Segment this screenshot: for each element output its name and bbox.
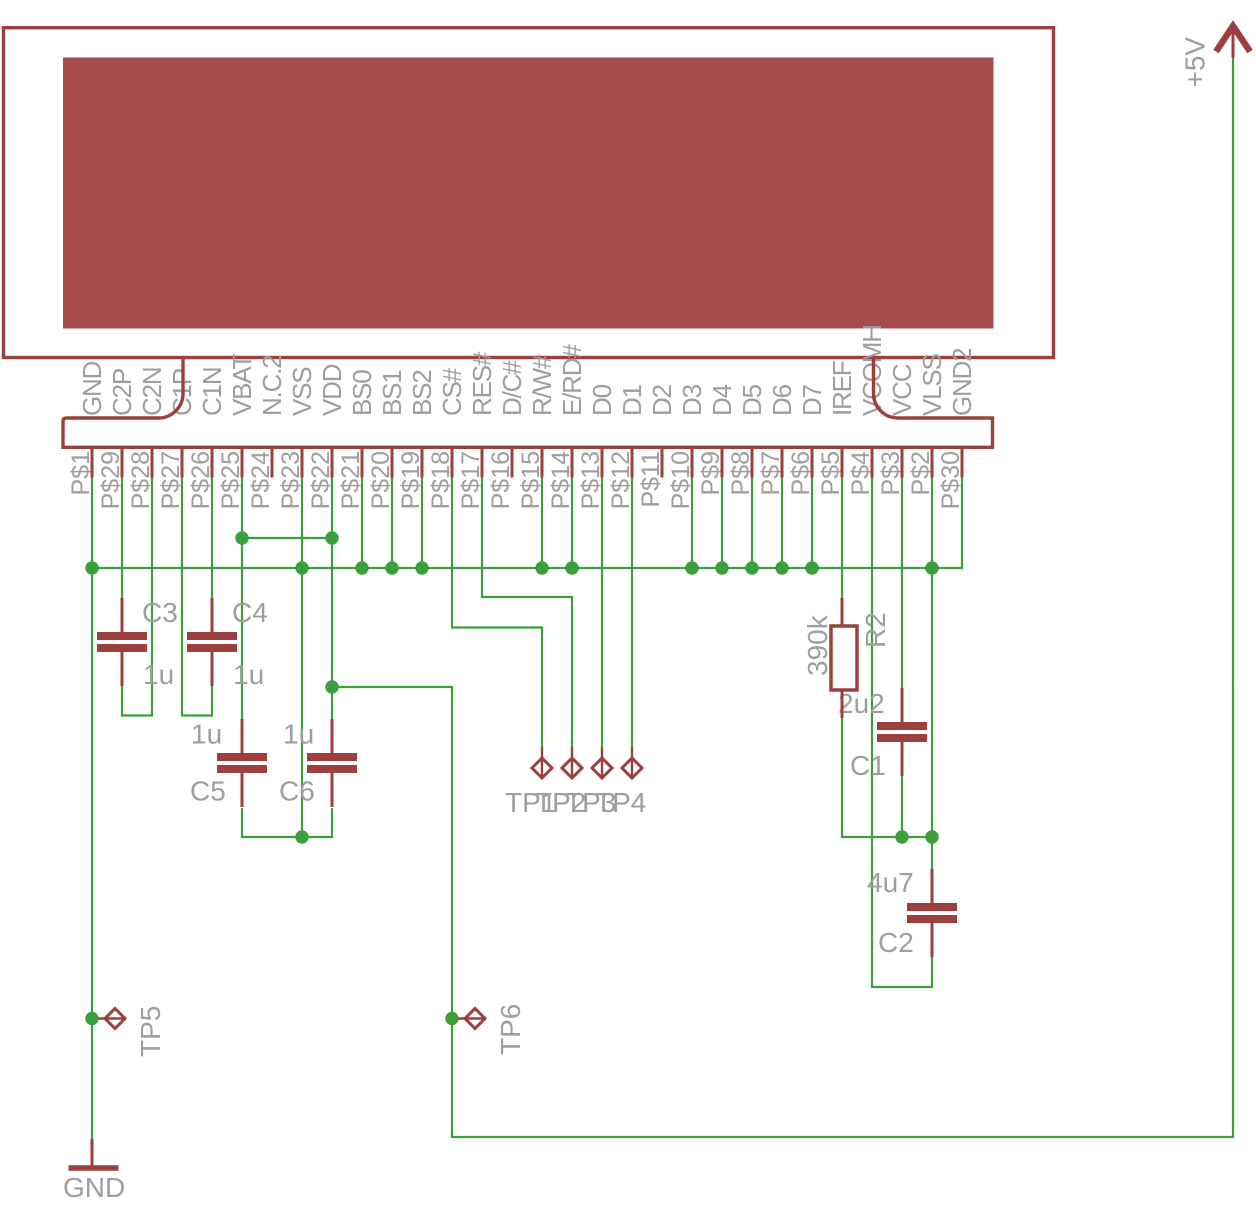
pin P$21 (BS0) label xyxy=(337,370,377,510)
pin P$28 (C2N) label xyxy=(127,368,167,510)
svg-text:D/C#: D/C# xyxy=(497,360,527,416)
svg-text:C2N: C2N xyxy=(137,368,167,416)
svg-text:BS0: BS0 xyxy=(347,370,377,416)
junction at (692,568) xyxy=(685,561,698,574)
pin P$14 stub xyxy=(571,447,574,477)
pin P$22 stub xyxy=(331,447,334,477)
pin P$27 stub xyxy=(181,447,184,477)
wire net D4 to bus xyxy=(721,478,723,569)
pin P$18 (CS#) label xyxy=(427,367,467,509)
wire net VCOMH P$4 to C2 bottom xyxy=(872,478,932,988)
svg-text:D6: D6 xyxy=(767,384,797,416)
wire net E/RD# to bus xyxy=(571,478,573,569)
svg-text:C1N: C1N xyxy=(197,368,227,416)
pin P$24 (N.C.2) label xyxy=(247,355,287,510)
pin P$25 stub xyxy=(241,447,244,477)
pin P$26 (C1N) label xyxy=(187,368,227,510)
pin P$2 stub xyxy=(931,447,934,477)
test point TP4 xyxy=(595,747,646,818)
svg-text:GND: GND xyxy=(63,1172,125,1203)
pin P$12 (D1) label xyxy=(607,384,647,509)
svg-text:D2: D2 xyxy=(647,384,677,416)
svg-text:D0: D0 xyxy=(587,384,617,416)
connector body outline xyxy=(63,358,993,448)
svg-text:C2P: C2P xyxy=(107,369,137,416)
pin P$17 (RES#) label xyxy=(457,351,497,509)
capacitor C4 1u xyxy=(187,597,268,690)
capacitor C3 1u xyxy=(97,597,178,690)
pin P$27 (C1P) label xyxy=(157,369,197,509)
svg-text:N.C.2: N.C.2 xyxy=(257,355,287,416)
pin P$10 stub xyxy=(691,447,694,477)
pin P$19 stub xyxy=(421,447,424,477)
pin P$1 (GND) label xyxy=(67,361,107,495)
wire net VBAT P$25 to C5 xyxy=(241,478,243,720)
junction at (332,687) xyxy=(325,680,338,693)
pin P$8 stub xyxy=(751,447,754,477)
wire net D1 to TP4 xyxy=(631,478,633,748)
test point TP5 xyxy=(98,1006,166,1057)
pin P$19 (BS2) label xyxy=(397,370,437,510)
svg-text:VBAT: VBAT xyxy=(227,354,257,416)
test point TP1 xyxy=(505,747,556,818)
junction at (572,568) xyxy=(565,561,578,574)
junction at (332,538) xyxy=(325,531,338,544)
pin P$11 (D2) label xyxy=(637,384,677,507)
pin P$29 (C2P) label xyxy=(97,369,137,509)
pin P$7 stub xyxy=(781,447,784,477)
wire net C1 bottom to GND rail xyxy=(901,776,903,837)
pin P$28 stub xyxy=(151,447,154,477)
svg-text:1u: 1u xyxy=(143,659,174,690)
junction at (902,837) xyxy=(895,830,908,843)
junction at (302,837) xyxy=(295,830,308,843)
wire net VLSS P$2 to GND rail xyxy=(931,478,933,838)
pin P$24 stub xyxy=(271,447,274,477)
svg-text:VCC: VCC xyxy=(887,364,917,416)
pin P$15 stub xyxy=(541,447,544,477)
svg-text:C5: C5 xyxy=(190,776,226,807)
svg-text:C2: C2 xyxy=(878,927,914,958)
pin P$8 (D5) label xyxy=(727,384,767,495)
svg-text:D1: D1 xyxy=(617,384,647,416)
wire net RES# P$17 to TP2 xyxy=(482,478,572,748)
wire net R/W# to bus xyxy=(541,478,543,569)
pin P$23 stub xyxy=(301,447,304,477)
svg-text:D5: D5 xyxy=(737,384,767,416)
display active area (filled) xyxy=(63,58,994,329)
pin P$20 stub xyxy=(391,447,394,477)
junction at (932,837) xyxy=(925,830,938,843)
pin P$14 (E/RD#) label xyxy=(547,344,587,510)
pin P$30 stub xyxy=(961,447,964,477)
svg-text:C3: C3 xyxy=(142,597,178,628)
svg-text:D3: D3 xyxy=(677,384,707,416)
wire net D5 to bus xyxy=(751,478,753,569)
pin P$30 (GND2) label xyxy=(937,348,977,510)
pin P$12 stub xyxy=(631,447,634,477)
capacitor C1 2u2 xyxy=(838,688,927,781)
pin P$13 (D0) label xyxy=(577,384,617,509)
pin P$5 (IREF) label xyxy=(817,361,857,495)
pin P$6 stub xyxy=(811,447,814,477)
pin P$7 (D6) label xyxy=(757,384,797,495)
test point TP3 xyxy=(565,747,616,818)
wire net C2 top to GND rail xyxy=(931,837,933,869)
pin P$9 (D4) label xyxy=(697,384,737,495)
pin P$18 stub xyxy=(451,447,454,477)
wire net VCC P$3 to C1 xyxy=(901,478,903,689)
svg-text:390k: 390k xyxy=(802,614,833,676)
wire net CS# P$18 to TP1 xyxy=(452,478,542,748)
junction at (812,568) xyxy=(805,561,818,574)
pin P$16 stub xyxy=(511,447,514,477)
svg-text:C1: C1 xyxy=(850,750,886,781)
pin P$25 (VBAT) label xyxy=(217,354,257,510)
wire net C1P P$27 to C4 bottom xyxy=(182,478,212,716)
svg-text:D7: D7 xyxy=(797,384,827,416)
wire net BS0 to bus xyxy=(361,478,363,569)
svg-text:E/RD#: E/RD# xyxy=(557,344,587,416)
pin P$15 (R/W#) label xyxy=(517,354,557,509)
junction at (932,568) xyxy=(925,561,938,574)
svg-text:C4: C4 xyxy=(232,597,268,628)
pin P$22 (VDD) label xyxy=(307,364,347,509)
svg-text:4u7: 4u7 xyxy=(867,867,914,898)
junction at (92,568) xyxy=(85,561,98,574)
pin P$5 stub xyxy=(841,447,844,477)
capacitor C5 1u xyxy=(190,719,267,808)
wire net D0 to TP3 xyxy=(601,478,603,748)
test point TP6 xyxy=(458,1004,526,1055)
wire net GND from P$1 down xyxy=(91,478,93,1140)
wire net BS1 to bus xyxy=(391,478,393,569)
power symbol +5V xyxy=(1180,26,1251,88)
pin P$11 stub xyxy=(661,447,664,477)
ground symbol GND xyxy=(63,1139,125,1203)
svg-text:VLSS: VLSS xyxy=(917,353,947,416)
pin P$6 (D7) label xyxy=(787,384,827,495)
capacitor C6 1u xyxy=(279,719,357,808)
pin P$21 stub xyxy=(361,447,364,477)
svg-text:C6: C6 xyxy=(279,776,315,807)
pin P$13 stub xyxy=(601,447,604,477)
junction at (752,568) xyxy=(745,561,758,574)
svg-text:CS#: CS# xyxy=(437,367,467,416)
junction at (782,568) xyxy=(775,561,788,574)
wire net IREF P$5 to R2 xyxy=(841,478,843,599)
wire net D6 to bus xyxy=(781,478,783,569)
svg-text:1u: 1u xyxy=(233,659,264,690)
wire net BS2 to bus xyxy=(421,478,423,569)
svg-text:IREF: IREF xyxy=(827,361,857,416)
wire net D3 to bus xyxy=(691,478,693,569)
pin P$4 stub xyxy=(871,447,874,477)
junction at (452,1018.5) xyxy=(445,1012,458,1025)
pin P$26 stub xyxy=(211,447,214,477)
wire GND bus xyxy=(92,478,962,569)
pin P$23 (VSS) label xyxy=(277,367,317,510)
svg-text:BS1: BS1 xyxy=(377,370,407,416)
pin P$3 (VCC) label xyxy=(877,364,917,495)
svg-text:D4: D4 xyxy=(707,384,737,416)
wire net C1N P$26 to C4 top xyxy=(211,478,213,599)
pin P$29 stub xyxy=(121,447,124,477)
svg-text:R2: R2 xyxy=(860,612,891,648)
display module outline U1 xyxy=(4,28,1054,358)
wire net VSS P$23 down to GND rail xyxy=(301,478,303,838)
wire net +5V from VDD junction to supply xyxy=(332,57,1233,1137)
svg-text:1u: 1u xyxy=(191,719,222,750)
svg-text:VDD: VDD xyxy=(317,364,347,416)
pin P$17 stub xyxy=(481,447,484,477)
junction at (302,568) xyxy=(295,561,308,574)
pin P$20 (BS1) label xyxy=(367,370,407,510)
svg-text:2u2: 2u2 xyxy=(838,688,885,719)
pin P$3 stub xyxy=(901,447,904,477)
svg-text:TP6: TP6 xyxy=(495,1004,526,1055)
wire net C2N C3 bottom to P$28 xyxy=(122,478,152,716)
svg-text:RES#: RES# xyxy=(467,351,497,416)
junction at (422,568) xyxy=(415,561,428,574)
svg-text:R/W#: R/W# xyxy=(527,354,557,416)
svg-text:GND: GND xyxy=(77,361,107,416)
wire net R2 bottom to GND rail xyxy=(842,718,932,837)
resistor R2 390k xyxy=(802,598,891,718)
wire net VBAT-VDD tie xyxy=(242,537,332,539)
pin P$10 (D3) label xyxy=(667,384,707,509)
junction at (392,568) xyxy=(385,561,398,574)
junction at (722,568) xyxy=(715,561,728,574)
svg-text:+5V: +5V xyxy=(1180,37,1211,88)
wire net VDD P$22 to C6 xyxy=(331,478,333,720)
svg-text:GND2: GND2 xyxy=(947,348,977,416)
junction at (542,568) xyxy=(535,561,548,574)
wire net D7 to bus xyxy=(811,478,813,569)
svg-text:TP5: TP5 xyxy=(135,1006,166,1057)
junction at (92,1018.5) xyxy=(85,1012,98,1025)
svg-text:TP4: TP4 xyxy=(595,787,646,818)
test point TP2 xyxy=(535,747,586,818)
junction at (362,568) xyxy=(355,561,368,574)
pin P$1 stub xyxy=(91,447,94,477)
svg-text:1u: 1u xyxy=(283,719,314,750)
pin P$16 (D/C#) label xyxy=(487,360,527,510)
wire net C5/C6 bottom tie xyxy=(242,808,332,837)
pin P$4 (VCOMH) label xyxy=(847,325,887,495)
wire net C2P P$29 to C3 xyxy=(121,478,123,599)
svg-text:BS2: BS2 xyxy=(407,370,437,416)
capacitor C2 4u7 xyxy=(867,867,957,958)
junction at (242,538) xyxy=(235,531,248,544)
svg-text:VSS: VSS xyxy=(287,367,317,416)
pin P$2 (VLSS) label xyxy=(907,353,947,495)
pin P$9 stub xyxy=(721,447,724,477)
